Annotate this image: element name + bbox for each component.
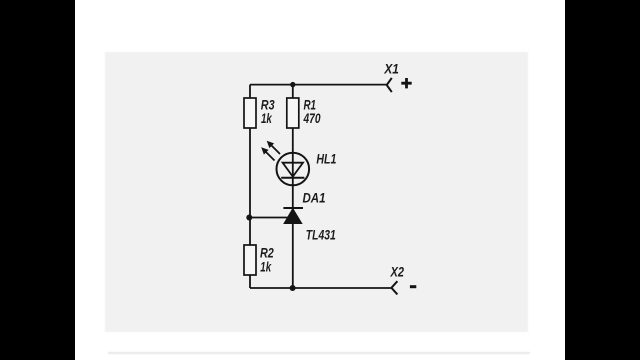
wire left branch vertical [249, 85, 251, 288]
plus polarity mark [401, 78, 411, 88]
svg-text:1k: 1k [261, 110, 273, 126]
terminal X2 [391, 281, 397, 294]
right letterbox bar [565, 0, 640, 360]
terminal X1 [387, 78, 392, 92]
LED light arrow 1 [267, 141, 280, 154]
shunt regulator DA1 triangle [284, 209, 301, 224]
wire R1/LED branch vertical [292, 85, 294, 288]
resistor R3 [244, 98, 256, 128]
resistor R2 [244, 245, 256, 275]
svg-text:1k: 1k [260, 259, 272, 275]
next page edge [108, 352, 530, 354]
svg-text:X2: X2 [390, 264, 404, 280]
svg-text:470: 470 [303, 110, 321, 126]
wire top rail [250, 84, 387, 86]
shunt regulator DA1 cathode bar [283, 207, 303, 209]
wire bottom rail [250, 287, 391, 289]
LED light arrow 2 [261, 147, 274, 160]
resistor R1 [287, 98, 299, 128]
LED HL1 triangle [283, 163, 303, 177]
svg-text:X1: X1 [384, 61, 400, 77]
wire TL431 reference [250, 217, 289, 219]
LED HL1 circle [277, 153, 310, 186]
svg-text:HL1: HL1 [316, 151, 336, 167]
left letterbox bar [0, 0, 75, 360]
LED HL1 cathode bar [281, 177, 304, 179]
schematic page [105, 52, 528, 332]
svg-text:TL431: TL431 [306, 226, 336, 242]
svg-text:DA1: DA1 [303, 189, 326, 205]
minus polarity mark [410, 285, 416, 288]
node junction bottom [290, 285, 296, 291]
node junction reference [246, 215, 252, 221]
node junction top [290, 82, 295, 87]
